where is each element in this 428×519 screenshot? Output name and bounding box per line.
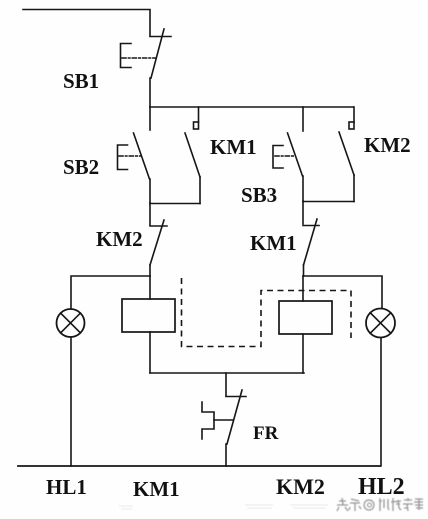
svg-text:KM1: KM1: [250, 231, 297, 255]
svg-text:HL1: HL1: [46, 475, 87, 499]
svg-text:HL2: HL2: [358, 474, 405, 500]
svg-text:KM1: KM1: [133, 477, 180, 501]
svg-text:KM2: KM2: [364, 133, 411, 157]
svg-text:KM1: KM1: [210, 135, 257, 159]
svg-text:SB1: SB1: [63, 69, 99, 93]
svg-text:SB2: SB2: [63, 155, 99, 179]
svg-text:KM2: KM2: [276, 474, 325, 499]
svg-text:KM2: KM2: [96, 227, 143, 251]
svg-text:SB3: SB3: [241, 183, 277, 207]
svg-text:FR: FR: [253, 423, 279, 444]
